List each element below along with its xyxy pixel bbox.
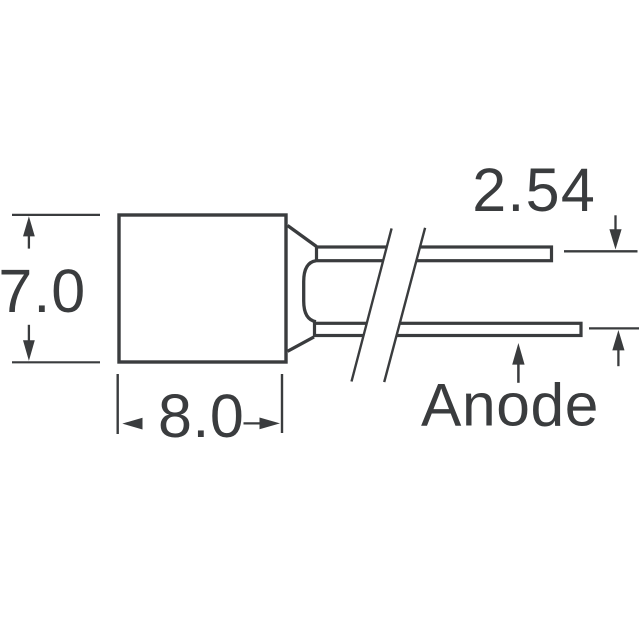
2.54 dimension label <box>472 156 596 224</box>
Anode label <box>421 371 599 439</box>
2.54 dimension: up arrow <box>612 330 624 366</box>
svg-text:Anode: Anode <box>421 371 599 439</box>
anode pointer arrow <box>512 343 524 383</box>
LED body (side view rectangle) <box>119 215 286 362</box>
7.0 dimension: top extension line <box>12 214 100 216</box>
8.0 dimension label <box>158 382 244 450</box>
2.54 dimension: down arrow <box>609 215 621 249</box>
8.0 dimension: left arrowhead <box>122 418 142 430</box>
anode lead (bottom) <box>315 323 582 335</box>
7.0 dimension: down arrow <box>23 325 35 361</box>
svg-text:7.0: 7.0 <box>0 257 86 325</box>
epoxy dome bulge between leads <box>304 261 316 322</box>
7.0 dimension: up arrow <box>23 216 35 248</box>
break-mark slash 2 <box>384 228 425 382</box>
svg-text:8.0: 8.0 <box>158 382 244 450</box>
svg-text:2.54: 2.54 <box>472 156 596 224</box>
2.54 dimension: lower dimension line <box>589 327 639 329</box>
8.0 dimension: right arrow <box>244 418 281 430</box>
7.0 dimension label <box>0 257 86 325</box>
bottom taper from body to anode lead <box>288 337 315 351</box>
8.0 dimension: left extension line <box>116 374 118 434</box>
break-mark white band <box>352 228 426 382</box>
cathode lead (top) <box>317 247 552 261</box>
7.0 dimension: bottom extension line <box>12 361 100 363</box>
2.54 dimension: upper dimension line <box>564 250 638 252</box>
break-mark slash 1 <box>352 228 392 381</box>
top taper from body to cathode lead <box>288 226 317 247</box>
8.0 dimension: right extension line <box>281 374 283 433</box>
